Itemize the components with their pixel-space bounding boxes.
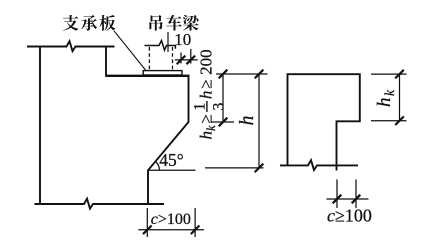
svg-text:c≥100: c≥100 (327, 206, 372, 226)
svg-text:10: 10 (174, 30, 191, 49)
svg-text:≥: ≥ (197, 79, 216, 88)
svg-text:h: h (197, 91, 216, 100)
svg-text:3: 3 (210, 103, 227, 111)
svg-text:≥: ≥ (197, 114, 216, 123)
svg-text:200: 200 (197, 49, 216, 75)
svg-text:h: h (237, 116, 258, 126)
svg-text:45°: 45° (159, 150, 184, 170)
svg-text:1: 1 (192, 103, 209, 111)
svg-text:c>100: c>100 (151, 211, 191, 228)
